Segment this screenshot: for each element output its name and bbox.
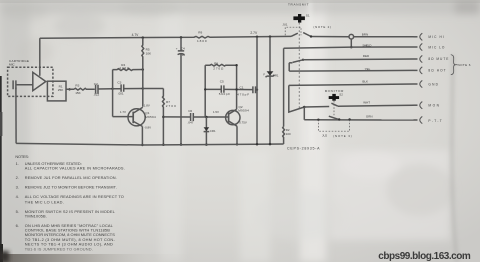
wire GRN <box>304 119 413 121</box>
switch S2 contact arm <box>331 103 338 106</box>
svg-text:C6: C6 <box>188 109 192 113</box>
wire WHT right <box>338 105 414 106</box>
switch S1 contacts <box>291 33 311 37</box>
svg-text:15K: 15K <box>75 91 81 95</box>
node dot CR1 <box>205 116 208 119</box>
wire RED <box>303 58 414 61</box>
capacitor C4 electrolytic <box>178 37 185 144</box>
svg-text:5.: 5. <box>16 209 19 214</box>
svg-text:560pF: 560pF <box>219 92 231 96</box>
cartridge dashed box <box>8 67 53 96</box>
switch PTT arm <box>329 116 339 119</box>
wire Q2 emitter down <box>236 126 238 144</box>
capacitor C6 line <box>163 113 228 121</box>
svg-text:P-T-T: P-T-T <box>428 119 441 123</box>
wire element to amp <box>16 84 33 86</box>
svg-text:THE MIC LO LEAD.: THE MIC LO LEAD. <box>25 199 64 204</box>
svg-text:TRANSMIT: TRANSMIT <box>288 2 309 6</box>
resistor R8 branch <box>205 64 236 66</box>
node dot R4/R5 <box>142 68 145 71</box>
svg-text:100: 100 <box>286 132 291 136</box>
svg-text:MIC: MIC <box>9 62 15 66</box>
svg-text:1.5V: 1.5V <box>213 110 219 114</box>
wire YEL <box>289 69 413 72</box>
svg-text:SHIELD: SHIELD <box>362 43 372 47</box>
svg-text:+: + <box>176 46 178 50</box>
node dot C1 right <box>256 89 258 91</box>
wire bottom ground rail <box>16 143 284 145</box>
svg-text:(NOTE 2): (NOTE 2) <box>313 25 331 29</box>
svg-text:16: 16 <box>182 53 186 57</box>
node dot C4 rail <box>180 36 183 39</box>
wire supply drop to amp <box>39 38 41 76</box>
svg-text:C5: C5 <box>220 79 224 83</box>
resistor R5 vertical <box>142 38 144 107</box>
svg-text:ALL CAPACITOR VALUES ARE IN MI: ALL CAPACITOR VALUES ARE IN MICROFARADS. <box>25 166 125 171</box>
svg-text:GRN: GRN <box>366 115 373 119</box>
capacitor C1 <box>224 86 257 93</box>
wire C2 to node <box>98 88 113 90</box>
transistor Q2 <box>226 110 240 124</box>
potentiometer R1 box <box>47 81 66 101</box>
node dots GRN <box>317 119 319 121</box>
svg-text:10K: 10K <box>146 52 152 56</box>
node dot x257 rail <box>256 35 259 38</box>
resistor R3 <box>74 88 95 90</box>
svg-text:8Ω HOT: 8Ω HOT <box>428 69 445 73</box>
wire fixed contact down <box>288 63 290 71</box>
switch S1 linkage dashed <box>298 23 300 109</box>
svg-text:M9594: M9594 <box>145 115 156 119</box>
transistor Q1 <box>128 109 145 126</box>
bottom dark band <box>0 254 195 262</box>
svg-text:C2: C2 <box>94 82 98 86</box>
shield circle <box>349 34 354 39</box>
svg-text:(NOTE 3): (NOTE 3) <box>333 134 352 138</box>
note6 brace <box>451 55 456 75</box>
svg-text:R5: R5 <box>146 47 150 51</box>
svg-text:470pF: 470pF <box>237 93 249 97</box>
wire SHIELD <box>284 47 414 48</box>
svg-text:MON: MON <box>428 104 439 108</box>
switch S1 mute contacts <box>302 59 304 61</box>
svg-text:REMOVE JU1 FOR PARALLEL MIC OP: REMOVE JU1 FOR PARALLEL MIC OPERATION. <box>25 175 117 180</box>
wire BLK bracket <box>289 85 305 112</box>
svg-text:S1: S1 <box>306 14 310 18</box>
svg-text:C4: C4 <box>181 46 185 50</box>
wire vertical VR1 <box>269 37 271 145</box>
svg-text:1800: 1800 <box>197 39 207 43</box>
wire R1 to R3 <box>66 88 74 90</box>
node dot shield <box>350 46 353 49</box>
jumper JU2 dashed <box>318 119 349 131</box>
node dot CR1 rail <box>205 143 208 146</box>
node dot Q2 emitter rail <box>236 143 238 145</box>
node dot VR1 bottom <box>269 143 272 146</box>
svg-text:1.: 1. <box>16 161 19 166</box>
wiper arrow R1 <box>66 88 70 91</box>
svg-text:4.: 4. <box>16 194 19 199</box>
wire Q1 emitter down <box>141 126 143 145</box>
svg-text:C3: C3 <box>117 81 121 85</box>
svg-text:1.7V: 1.7V <box>120 110 126 114</box>
svg-text:TB1-6 IS JUMPERED TO GROUND.: TB1-6 IS JUMPERED TO GROUND. <box>25 246 93 251</box>
wire gnd bus vertical <box>283 48 285 126</box>
svg-text:M9594: M9594 <box>238 109 249 113</box>
wire GRN drop <box>303 107 305 120</box>
svg-text:6.: 6. <box>16 223 19 228</box>
wire top rail to connector <box>354 36 414 38</box>
wire Q2 collector up <box>236 65 238 109</box>
svg-text:cbps99.blog.163.com: cbps99.blog.163.com <box>378 251 471 262</box>
svg-text:3.: 3. <box>16 185 19 190</box>
svg-text:WHT: WHT <box>363 100 370 104</box>
svg-text:RED: RED <box>363 54 370 58</box>
svg-text:GND: GND <box>428 82 438 86</box>
node dot Q1 emitter rail <box>141 144 143 146</box>
wire vertical x257 <box>256 37 258 145</box>
wire BLK <box>289 84 414 85</box>
svg-text:C1: C1 <box>240 86 244 90</box>
wire top rail left segment with R9 <box>40 36 291 38</box>
svg-text:1.8V: 1.8V <box>144 104 150 108</box>
svg-text:JU1: JU1 <box>282 23 288 27</box>
svg-text:BRN: BRN <box>362 33 368 37</box>
svg-text:R3: R3 <box>75 84 79 88</box>
svg-text:JU2: JU2 <box>322 134 328 138</box>
wire collector to R7 <box>143 88 164 90</box>
svg-text:2700: 2700 <box>166 104 176 108</box>
svg-text:REMOVE JU2 TO MONITOR BEFORE T: REMOVE JU2 TO MONITOR BEFORE TRANSMIT. <box>25 185 117 190</box>
svg-text:CEPS-28935-A: CEPS-28935-A <box>287 147 320 151</box>
svg-text:NOTE 6: NOTE 6 <box>458 63 471 67</box>
node dot x257 bottom <box>256 143 259 146</box>
node dot R7 rail <box>162 144 165 147</box>
mic element plates <box>13 80 16 89</box>
connector arcs <box>414 33 423 123</box>
svg-text:8Ω MUTE: 8Ω MUTE <box>428 57 448 61</box>
svg-text:R9: R9 <box>198 31 202 35</box>
svg-text:270Ω: 270Ω <box>213 67 224 71</box>
svg-text:.001: .001 <box>118 92 124 96</box>
capacitor C5 <box>205 85 224 92</box>
node dot R5 rail <box>142 36 145 39</box>
wire WHT left <box>304 106 329 109</box>
switch S2 linkage dashed <box>333 101 335 117</box>
svg-text:MIC LO: MIC LO <box>428 45 445 49</box>
wire Q1 base <box>113 116 134 118</box>
node dot C4 rail bottom <box>180 143 183 146</box>
notes block <box>15 154 124 252</box>
svg-text:CR1: CR1 <box>210 129 216 133</box>
svg-text:25K: 25K <box>58 88 64 92</box>
node dot monitor common <box>303 106 306 109</box>
svg-text:NOTES:: NOTES: <box>15 154 29 159</box>
switch S1 button <box>293 16 305 20</box>
svg-text:470Ω: 470Ω <box>119 66 130 70</box>
op-amp triangle <box>33 72 46 90</box>
resistor R2 <box>283 127 285 144</box>
jumper JU1 dashed <box>285 27 301 35</box>
switch S2 button <box>329 96 339 99</box>
resistor R7 vertical <box>163 89 165 145</box>
svg-text:S2: S2 <box>339 93 343 97</box>
svg-text:.022: .022 <box>93 92 99 96</box>
wire shield drop <box>350 39 352 47</box>
resistor R4 branch <box>113 69 143 71</box>
svg-text:TMN1005B.: TMN1005B. <box>25 214 47 219</box>
svg-text:R8: R8 <box>214 61 218 65</box>
svg-text:0.75V: 0.75V <box>239 121 247 125</box>
svg-text:YEL: YEL <box>365 67 371 71</box>
node dot C1 collector <box>235 88 237 90</box>
node A junction <box>111 87 114 90</box>
svg-text:2.: 2. <box>16 175 19 180</box>
svg-text:MIC HI: MIC HI <box>428 35 444 39</box>
wire node A vertical <box>112 70 114 117</box>
capacitor C3 <box>113 84 143 91</box>
node dot VR1 rail <box>269 35 272 38</box>
capacitor C2 <box>96 85 98 94</box>
svg-text:2.7V: 2.7V <box>250 31 258 35</box>
wire mic down to ground rail <box>15 88 17 144</box>
svg-text:4.7V: 4.7V <box>132 33 140 37</box>
node dot R7/C6 <box>162 116 165 119</box>
left dark edge <box>0 76 2 262</box>
node dot collector <box>142 87 145 90</box>
node dot C5 left <box>204 88 206 90</box>
wire R8 left vertical <box>204 65 206 117</box>
diode CR1 <box>205 117 207 145</box>
varistor VR1 <box>267 71 274 75</box>
svg-text:BLK: BLK <box>362 80 368 84</box>
svg-text:VR1: VR1 <box>273 73 279 77</box>
wire top rail right of S1 <box>311 36 349 38</box>
svg-text:-0.8V: -0.8V <box>144 126 151 130</box>
svg-text:.047: .047 <box>187 120 193 124</box>
schematic ink <box>8 14 458 146</box>
